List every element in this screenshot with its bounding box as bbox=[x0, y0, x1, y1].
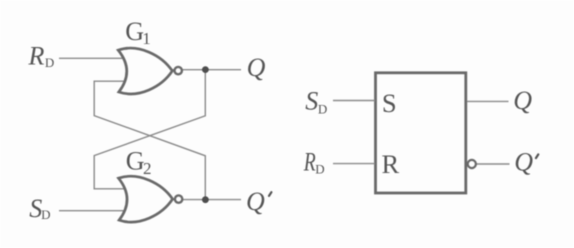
svg-text:Q: Q bbox=[513, 86, 532, 115]
svg-text:Q: Q bbox=[514, 148, 533, 177]
svg-text:D: D bbox=[318, 101, 327, 116]
svg-text:S: S bbox=[382, 88, 397, 118]
svg-text:2: 2 bbox=[143, 159, 152, 178]
svg-text:G: G bbox=[126, 146, 145, 175]
svg-text:Q: Q bbox=[246, 187, 265, 216]
svg-text:D: D bbox=[45, 55, 54, 70]
svg-text:Q: Q bbox=[247, 53, 266, 82]
svg-text:S: S bbox=[305, 87, 318, 116]
svg-text:G: G bbox=[125, 17, 144, 46]
svg-text:D: D bbox=[315, 162, 324, 177]
svg-text:R: R bbox=[303, 148, 316, 177]
svg-text:R: R bbox=[28, 41, 45, 70]
svg-text:1: 1 bbox=[142, 29, 151, 48]
svg-text:D: D bbox=[41, 207, 50, 222]
svg-text:R: R bbox=[382, 149, 400, 179]
